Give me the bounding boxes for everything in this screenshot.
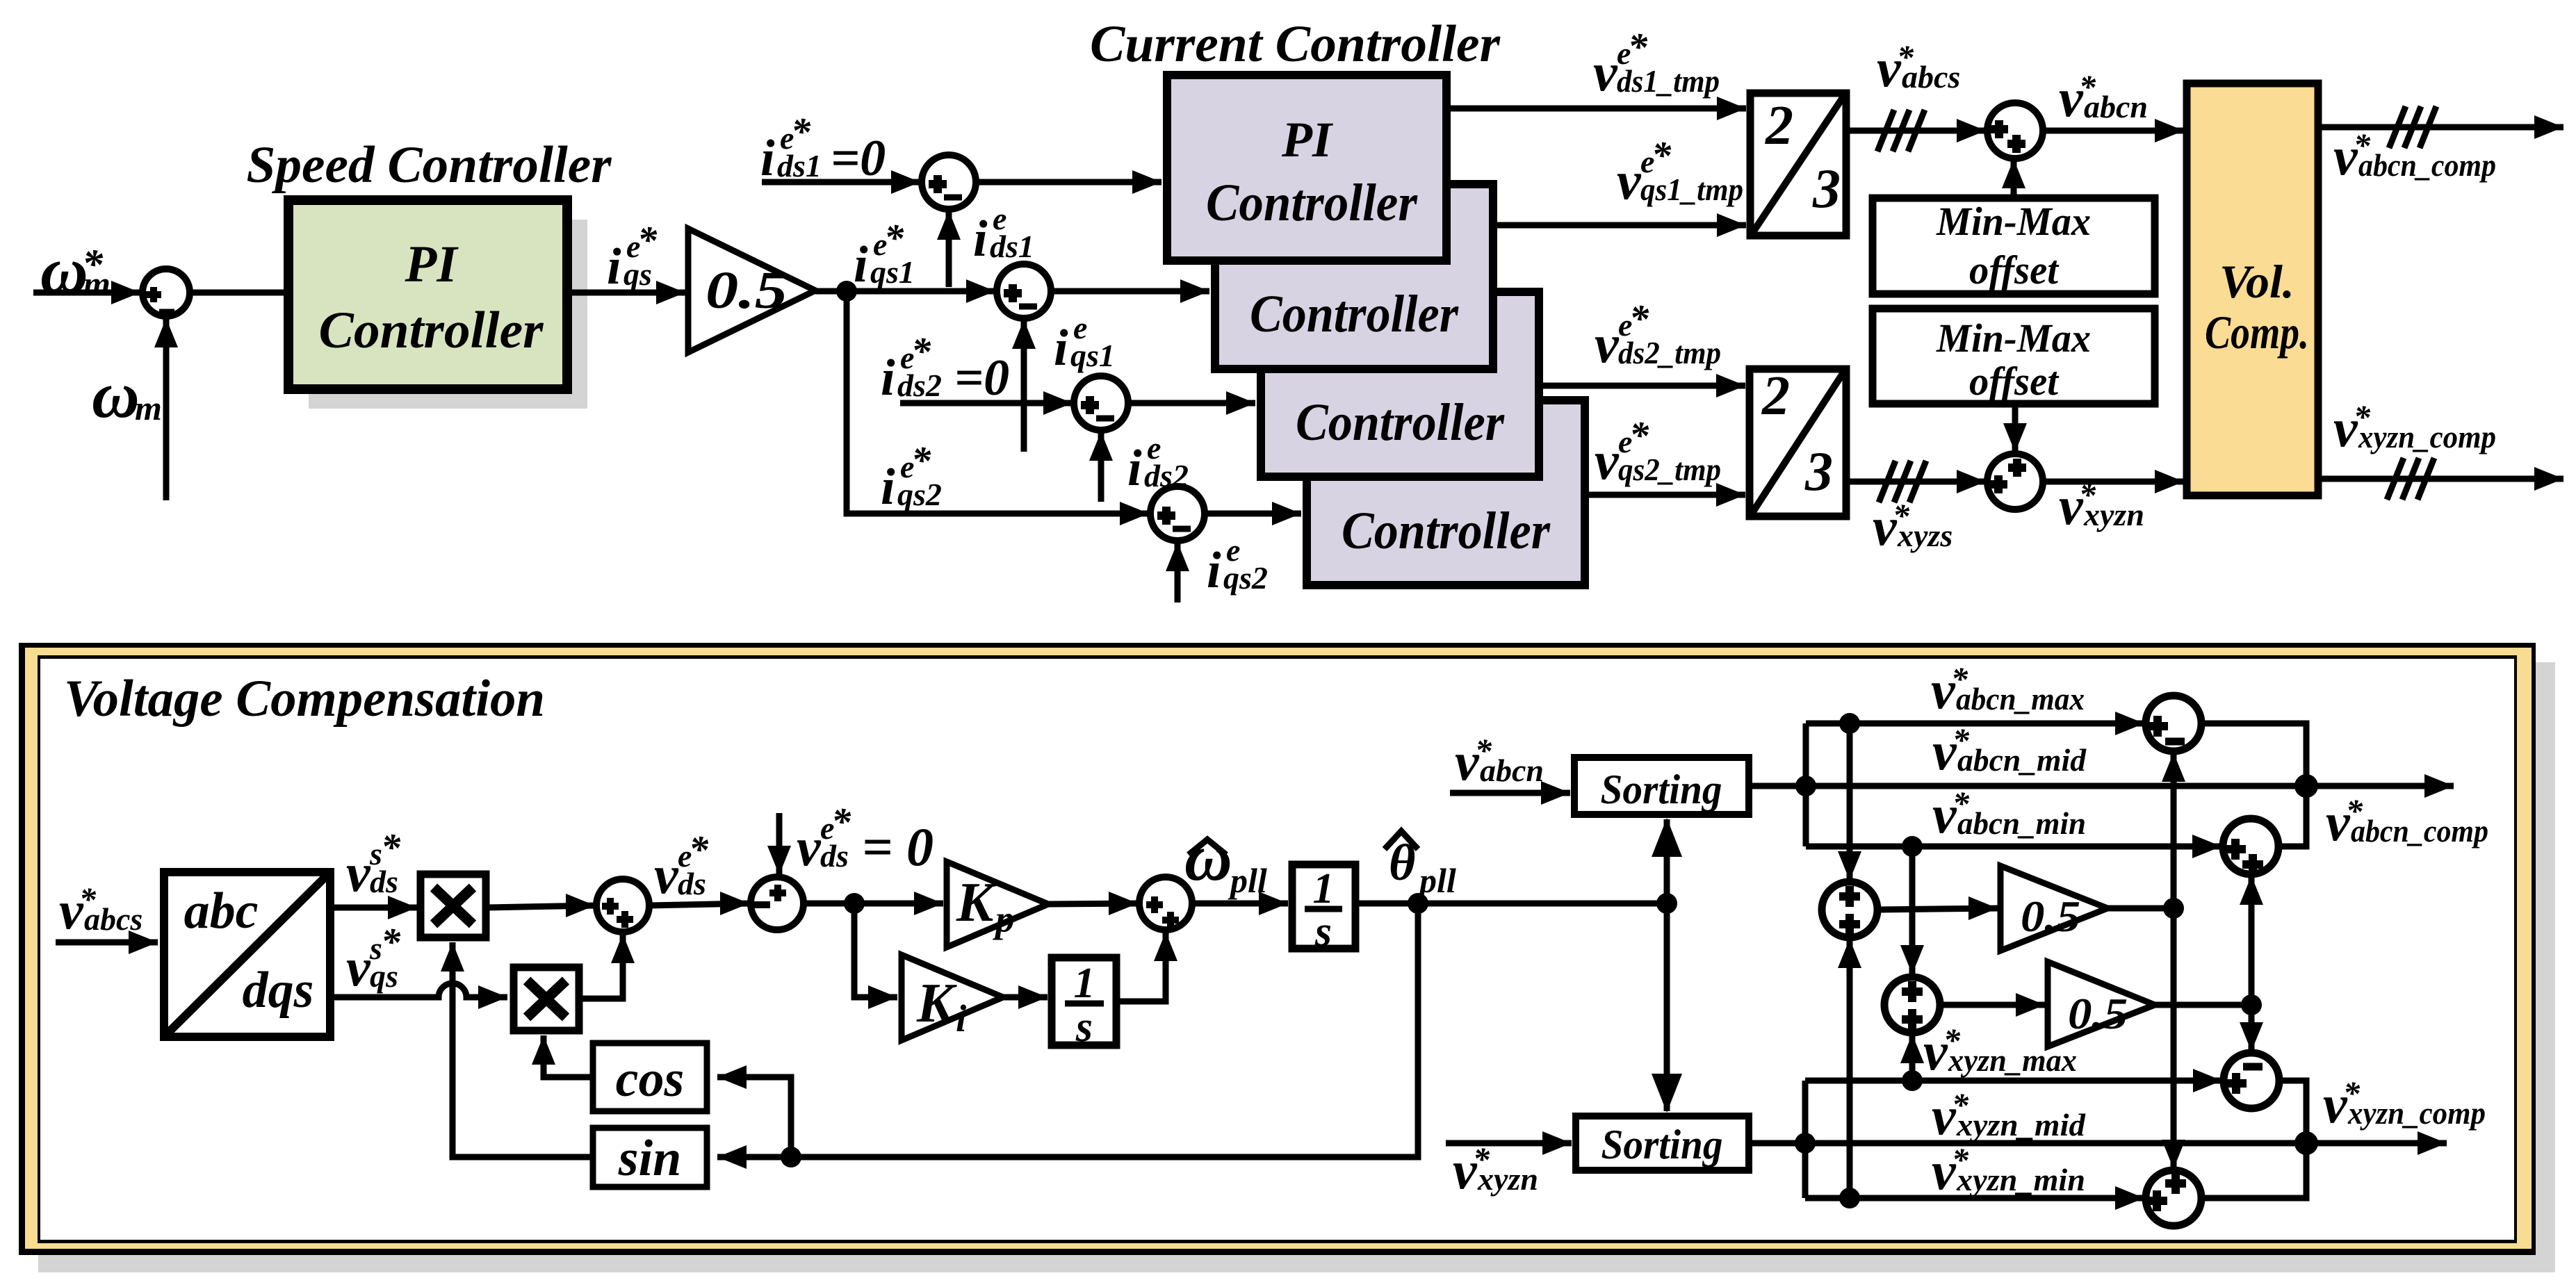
summing junction S10 — [1139, 877, 1192, 930]
node theta_pll — [1408, 893, 1428, 914]
wire theta feedback down-left to sin — [717, 903, 1418, 1157]
wire i_ds2 input — [900, 400, 1073, 407]
svg-text:xyzn_mid: xyzn_mid — [1956, 1107, 2086, 1142]
gain Ki — [902, 955, 1003, 1040]
wire v_abcn_comp out — [2306, 783, 2454, 789]
wire down to Ki — [854, 903, 897, 997]
summing junction S8 — [596, 879, 649, 932]
block current controller 4 back — [1307, 400, 1585, 585]
wire xyzn rows bracket — [1749, 1140, 1805, 1147]
svg-text:i: i — [607, 238, 621, 295]
block Min-Max offset 1 — [1873, 198, 2155, 294]
block cos — [593, 1043, 707, 1111]
svg-text:abcn: abcn — [1480, 753, 1544, 788]
node 0.5 lower out — [2241, 994, 2262, 1015]
wire to qs1 summing junction — [815, 288, 995, 295]
summing junction S1 speed error — [142, 269, 190, 316]
svg-text:v: v — [1617, 150, 1642, 211]
svg-text:offset: offset — [1969, 247, 2060, 293]
svg-text:qs2_tmp: qs2_tmp — [1618, 452, 1721, 487]
svg-text:ds2_tmp: ds2_tmp — [1618, 335, 1721, 370]
wire up to cos — [717, 1077, 791, 1157]
node xyzn_comp junction — [2294, 1131, 2318, 1155]
wire i_ds1 feedback stub — [946, 211, 952, 287]
svg-text:i: i — [854, 236, 868, 293]
node abcn_max branch — [1839, 713, 1860, 734]
svg-text:xyzs: xyzs — [1897, 518, 1953, 553]
summing junction S16 xyzn_min plus — [2146, 1170, 2201, 1226]
summing junction S13 abcn_max minus — [2146, 696, 2201, 751]
wire v_ds_s to multiplier X1 — [330, 905, 417, 911]
svg-text:abcn_comp: abcn_comp — [2358, 147, 2496, 183]
wire S10 to integrator2 — [1192, 901, 1288, 907]
svg-text:abcn_min: abcn_min — [1957, 805, 2086, 841]
wire v_qs2_tmp — [1585, 492, 1745, 498]
wire up to S13 — [2171, 753, 2177, 908]
node abcn_comp junction — [2294, 774, 2318, 798]
block Vol Comp — [2187, 83, 2318, 495]
svg-text:K: K — [916, 973, 957, 1034]
svg-text:=0: =0 — [831, 130, 886, 187]
svg-text:0.5: 0.5 — [2021, 892, 2080, 941]
svg-text:xyzn_comp: xyzn_comp — [2358, 419, 2496, 454]
block sin — [593, 1128, 707, 1187]
voltage compensation frame — [19, 643, 2536, 1255]
wire 0.5 lower out — [2155, 1002, 2251, 1008]
svg-text:ω: ω — [40, 233, 88, 307]
svg-text:3: 3 — [1812, 158, 1841, 220]
wire S16 out — [2201, 1143, 2306, 1198]
wire 0.5 out — [2108, 905, 2174, 912]
summing junction S15 xyzn_max minus — [2224, 1053, 2279, 1108]
gain Kp — [947, 862, 1048, 947]
svg-text:*: * — [689, 828, 709, 871]
wire X1 to S8 — [486, 905, 595, 908]
summing junction S2 ds1 — [922, 155, 976, 209]
svg-text:i: i — [881, 459, 895, 516]
svg-text:K: K — [956, 872, 997, 933]
wire S6 to Vol Comp — [2043, 128, 2184, 134]
svg-text:1: 1 — [1313, 865, 1335, 912]
svg-text:Speed Controller: Speed Controller — [247, 136, 612, 194]
shadow of speed PI block — [309, 220, 587, 409]
svg-text:xyzn: xyzn — [1477, 1161, 1538, 1197]
svg-text:v: v — [1593, 42, 1618, 102]
wire down to S15 — [2249, 1005, 2255, 1051]
wire S3 to box2 — [1051, 288, 1209, 295]
svg-text:i: i — [1207, 542, 1221, 599]
three-phase marks — [1879, 461, 1896, 502]
wire branch down to qs2 — [847, 291, 1149, 514]
wire v_ds2_tmp — [1539, 383, 1745, 389]
wire PI out i_qs — [567, 290, 685, 296]
node 0.5 out — [2163, 898, 2184, 919]
svg-text:xyzn_comp: xyzn_comp — [2347, 1095, 2486, 1131]
wire sin out to X1 — [453, 942, 593, 1157]
svg-text:ds1: ds1 — [777, 148, 822, 183]
node branch i_qs1 — [836, 281, 857, 302]
block 2/3 transform upper — [1750, 93, 1846, 236]
svg-text:s: s — [1314, 908, 1332, 956]
svg-text:*: * — [791, 110, 811, 154]
svg-text:*: * — [884, 217, 904, 260]
wire abcn_min down to S12 — [1909, 846, 1916, 974]
block integrator 1/s theta — [1292, 864, 1355, 949]
svg-text:qs: qs — [623, 256, 652, 292]
wire sorting link vertical — [1664, 819, 1670, 1111]
gain 0.5 current split — [688, 229, 815, 352]
summing junction S4 ds2 — [1074, 376, 1128, 430]
block current PI controller 1 front — [1167, 75, 1446, 261]
svg-text:m: m — [135, 388, 162, 427]
svg-text:sin: sin — [618, 1130, 682, 1187]
svg-text:abcs: abcs — [84, 901, 142, 937]
summing junction S12 min plus max — [1884, 977, 1940, 1033]
svg-text:qs1: qs1 — [1070, 338, 1115, 373]
node theta to sorting — [1656, 893, 1677, 914]
svg-text:v: v — [346, 937, 371, 997]
wire MinMax2 to S7 — [2012, 404, 2019, 452]
svg-text:abcn: abcn — [2084, 89, 2148, 124]
wire Ki to integrator — [1003, 994, 1047, 1001]
wire X2 up to S8 — [579, 934, 623, 999]
svg-text:i: i — [973, 211, 988, 268]
svg-text:0.5: 0.5 — [706, 261, 788, 320]
gain 0.5 upper — [2000, 866, 2108, 951]
svg-text:3: 3 — [1804, 441, 1833, 502]
wire Kp to S10 — [1048, 903, 1138, 904]
wire S2 to PI box1 — [976, 179, 1161, 186]
wire MinMax1 to S6 — [2011, 159, 2017, 198]
svg-text:xyzn: xyzn — [2083, 497, 2144, 532]
wire v_abcn_mid row — [1806, 783, 2306, 789]
svg-text:v: v — [797, 817, 822, 877]
svg-text:abcn_comp: abcn_comp — [2351, 813, 2488, 849]
wire xyzn_max up to S12 — [1909, 1034, 1916, 1081]
svg-text:Min-Max: Min-Max — [1936, 199, 2091, 244]
wire 2/3 upper out v_abcs — [1846, 128, 1986, 134]
summing junction S7 xyzn offset — [1987, 454, 2043, 509]
wire cos out to X2 — [544, 1035, 593, 1077]
svg-text:*: * — [381, 921, 401, 964]
svg-text:v: v — [654, 844, 679, 905]
wire S1 to PI block — [190, 290, 292, 296]
wire i_qs2 feedback stub — [1175, 542, 1181, 602]
wire S12 to 0.5 lower — [1940, 1002, 2045, 1008]
svg-text:0.5: 0.5 — [2068, 989, 2128, 1038]
wire S5 to box4 — [1205, 511, 1301, 517]
svg-text:abc: abc — [184, 883, 259, 940]
wire v_xyzn_max row — [1805, 1078, 2222, 1084]
node abcn_min branch — [1902, 836, 1923, 857]
svg-text:ω: ω — [1184, 821, 1232, 894]
three-phase marks — [2387, 458, 2404, 500]
svg-text:ds1_tmp: ds1_tmp — [1617, 63, 1720, 99]
svg-text:ds: ds — [678, 866, 706, 901]
node xyzn_min branch — [1839, 1188, 1860, 1208]
svg-text:Controller: Controller — [319, 302, 544, 359]
svg-text:2: 2 — [1761, 366, 1790, 427]
three-phase marks — [2389, 106, 2406, 148]
svg-text:xyzn_min: xyzn_min — [1956, 1162, 2085, 1197]
wire theta to sorting link — [1355, 901, 1667, 907]
block Speed PI Controller — [288, 200, 567, 389]
svg-text:i: i — [1054, 320, 1068, 377]
summing junction S5 qs2 — [1150, 486, 1205, 541]
svg-text:Vol.: Vol. — [2219, 255, 2294, 308]
block abc-dqs transform — [164, 872, 330, 1037]
svg-text:PI: PI — [405, 236, 459, 293]
wire v_xyzn_comp out — [2306, 1140, 2447, 1147]
svg-text:*: * — [911, 330, 931, 373]
wire v_xyzn into sorting — [1446, 1140, 1572, 1147]
svg-text:s: s — [1075, 1003, 1093, 1051]
svg-text:Controller: Controller — [1206, 174, 1418, 232]
svg-text:PI: PI — [1281, 112, 1334, 167]
wire i_ds2 feedback stub — [1098, 432, 1104, 502]
block 2/3 transform lower — [1750, 369, 1846, 516]
svg-text:= 0: = 0 — [862, 817, 934, 877]
wire S15 out — [2279, 1081, 2306, 1143]
wire sorting upper out bracket — [1749, 783, 1806, 789]
block current controller 2 — [1215, 184, 1493, 369]
wire S7 to Vol Comp — [2043, 479, 2184, 485]
svg-text:1: 1 — [1074, 960, 1095, 1007]
wire output v_xyzn_comp — [2318, 476, 2563, 482]
wire S14 out — [2279, 786, 2306, 846]
svg-text:*: * — [911, 439, 931, 482]
svg-text:v: v — [346, 842, 371, 903]
svg-text:=0: =0 — [954, 350, 1009, 407]
svg-text:*: * — [1628, 26, 1648, 69]
wire v_qs1_tmp — [1493, 222, 1746, 229]
wire v_abcn_max row — [1806, 721, 2144, 727]
svg-text:Sorting: Sorting — [1601, 767, 1722, 812]
svg-text:Controller: Controller — [1250, 285, 1459, 343]
wire abcn_max down to S11 — [1847, 723, 1853, 880]
block Sorting upper — [1574, 757, 1749, 814]
svg-text:Controller: Controller — [1342, 502, 1551, 560]
svg-text:*: * — [1652, 134, 1672, 177]
block Sorting lower — [1576, 1116, 1749, 1170]
node xyzn_max branch — [1902, 1070, 1923, 1091]
node sorting lower out — [1795, 1133, 1816, 1154]
summing junction S3 qs1 — [997, 264, 1051, 318]
wire v_abcs input — [56, 940, 158, 946]
node PLL error branch — [844, 893, 865, 914]
wire i_qs1 feedback stub — [1021, 320, 1027, 452]
svg-text:abcs: abcs — [1902, 59, 1960, 95]
wire v_xyzn_min row — [1805, 1195, 2144, 1202]
svg-text:Current Controller: Current Controller — [1090, 15, 1501, 73]
svg-text:*: * — [831, 801, 851, 844]
svg-text:v: v — [1595, 430, 1620, 491]
block current controller 3 — [1261, 292, 1539, 477]
svg-text:qs2: qs2 — [897, 477, 942, 512]
gain 0.5 lower — [2048, 962, 2155, 1047]
wire v_ds1_tmp — [1446, 106, 1746, 112]
wire v_abcn into sorting — [1450, 790, 1570, 796]
wire omega_m_ref input — [33, 290, 140, 296]
three-phase marks — [1877, 110, 1894, 151]
svg-text:*: * — [1629, 297, 1649, 341]
svg-text:abcn_mid: abcn_mid — [1957, 742, 2087, 778]
svg-text:dqs: dqs — [243, 962, 314, 1019]
wire S11 to 0.5 gain — [1877, 908, 1998, 910]
wire v_xyzn_mid row — [1805, 1140, 2306, 1147]
multiplier X2 — [514, 967, 579, 1031]
svg-text:abcn_max: abcn_max — [1956, 681, 2085, 716]
svg-text:ω: ω — [92, 358, 140, 432]
svg-text:cos: cos — [616, 1051, 685, 1108]
svg-text:Sorting: Sorting — [1601, 1122, 1723, 1167]
summing junction S6 abcn offset — [1987, 103, 2043, 158]
svg-text:i: i — [881, 350, 895, 407]
svg-text:p: p — [993, 898, 1015, 940]
node sin-cos branch — [781, 1147, 801, 1167]
svg-text:ds1: ds1 — [990, 229, 1034, 264]
wire integrator up to S10 — [1116, 932, 1166, 1001]
wire S13 out — [2201, 723, 2306, 786]
wire xyzn_min up to S11 — [1847, 939, 1853, 1198]
svg-text:ds2: ds2 — [897, 368, 942, 403]
svg-text:qs1_tmp: qs1_tmp — [1640, 172, 1743, 207]
wire i_ds1 input — [762, 179, 920, 186]
node sorting upper out — [1795, 776, 1816, 796]
wire omega_m feedback — [163, 318, 170, 500]
svg-text:i: i — [1127, 440, 1142, 497]
svg-text:ds: ds — [820, 838, 849, 874]
block integrator 1/s Ki path — [1052, 958, 1116, 1045]
block Min-Max offset 2 — [1873, 309, 2155, 404]
multiplier X1 — [421, 874, 486, 937]
svg-text:qs2: qs2 — [1223, 560, 1268, 596]
frame shadow — [38, 662, 2555, 1272]
svg-text:qs: qs — [370, 958, 398, 994]
svg-text:*: * — [1629, 414, 1649, 457]
svg-text:*: * — [637, 219, 658, 262]
wire 2/3 lower out v_xyzs — [1846, 479, 1986, 485]
svg-text:Min-Max: Min-Max — [1936, 315, 2091, 361]
svg-text:xyzn_max: xyzn_max — [1948, 1042, 2077, 1078]
svg-text:Controller: Controller — [1296, 393, 1505, 452]
wire to Kp — [804, 901, 943, 907]
summing junction S14 abcn_min plus — [2223, 819, 2279, 874]
svg-text:ds: ds — [370, 864, 398, 899]
wire up to S14 — [2249, 876, 2255, 1005]
svg-text:Comp.: Comp. — [2205, 306, 2309, 359]
svg-text:i: i — [760, 130, 775, 187]
summing junction S11 max plus min — [1822, 882, 1877, 937]
wire down to S16 — [2171, 908, 2177, 1169]
wire v_ds_ref zero input — [776, 813, 783, 875]
summing junction S9 PLL error — [751, 877, 804, 930]
wire v_qs_s with hop to multiplier X2 — [330, 983, 482, 997]
svg-text:m: m — [83, 264, 111, 303]
wire v_abcn_min row — [1806, 844, 2222, 850]
svg-text:2: 2 — [1765, 95, 1793, 156]
wire S4 to box3 — [1128, 400, 1255, 407]
svg-text:i: i — [956, 997, 967, 1040]
svg-text:*: * — [381, 826, 401, 869]
svg-text:offset: offset — [1969, 359, 2060, 404]
svg-text:qs1: qs1 — [870, 254, 915, 290]
svg-text:Voltage Compensation: Voltage Compensation — [64, 670, 545, 728]
wire output v_abcn_comp — [2318, 124, 2563, 131]
svg-text:v: v — [1595, 313, 1620, 374]
wire S8 to S9 — [649, 903, 749, 905]
